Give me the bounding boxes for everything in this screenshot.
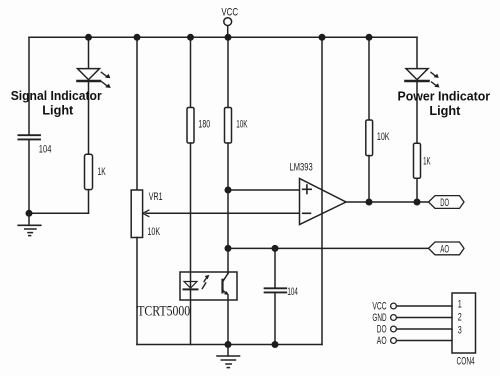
- connector CON4 body: [452, 293, 476, 353]
- wire VR1 bottom to ground rail: [136, 238, 138, 345]
- wire bottom ground rail: [137, 344, 322, 346]
- svg-text:Signal Indicator: Signal Indicator: [11, 88, 102, 103]
- connector pin 1 terminal: [391, 303, 397, 309]
- wire VR1 column top: [136, 37, 138, 190]
- svg-text:GND: GND: [372, 312, 386, 324]
- net flag AO: [429, 242, 465, 255]
- svg-text:Light: Light: [429, 103, 461, 118]
- wire AO line: [228, 247, 429, 249]
- TCRT5000 emission bolt arrow: [202, 275, 209, 289]
- potentiometer VR1 wiper arrow: [143, 210, 149, 216]
- svg-text:AO: AO: [440, 243, 449, 255]
- svg-text:1K: 1K: [423, 156, 431, 168]
- wire top VCC rail: [29, 36, 417, 38]
- capacitor C2 104: [265, 248, 287, 344]
- svg-text:180: 180: [198, 119, 210, 131]
- ground (bottom): [217, 345, 240, 368]
- LED D2 power indicator: [406, 37, 429, 143]
- LED D2 emission arrows: [431, 72, 440, 87]
- wire op-amp supply crossing (VCC to GND rail): [321, 37, 323, 344]
- potentiometer VR1 body: [131, 190, 142, 238]
- connector pin 2 wire: [396, 317, 452, 319]
- wire left column (bottom): [28, 139, 30, 213]
- op-amp minus sign: [303, 212, 311, 214]
- wire op-amp output to DO flag: [346, 201, 429, 203]
- node junction left ground: [26, 210, 33, 217]
- svg-text:Power Indicator: Power Indicator: [398, 88, 491, 103]
- op-amp plus sign: [303, 185, 312, 194]
- svg-text:1: 1: [458, 299, 462, 311]
- wire left column (top): [28, 37, 30, 135]
- resistor 1K (signal LED): [85, 154, 93, 189]
- svg-text:104: 104: [39, 144, 52, 156]
- connector pin 2 terminal: [391, 315, 397, 321]
- capacitor C1 104: [18, 135, 40, 139]
- connector pin 4 terminal: [391, 338, 397, 344]
- wire 10K to node A: [227, 143, 229, 190]
- node top rail junctions: [85, 34, 373, 41]
- wire resistor 1K to ground wire: [88, 190, 90, 214]
- wire wiper to inverting input: [146, 212, 300, 214]
- svg-text:CON4: CON4: [457, 356, 475, 368]
- connector pin 4 wire: [396, 340, 452, 342]
- svg-text:AO: AO: [377, 335, 387, 347]
- connector pin 1 wire: [396, 305, 452, 307]
- wire cap to resistor bottom: [29, 212, 89, 214]
- svg-text:2: 2: [458, 312, 462, 324]
- node A junction: [225, 187, 232, 194]
- svg-text:VR1: VR1: [149, 191, 163, 203]
- resistor 10K (middle): [225, 37, 232, 143]
- svg-text:10K: 10K: [236, 119, 248, 131]
- node ground junction (C2 bottom): [272, 341, 279, 348]
- node AO junction: [225, 245, 232, 252]
- power flag VCC: [224, 18, 232, 38]
- resistor 10K (right): [366, 37, 373, 202]
- svg-text:104: 104: [287, 286, 297, 298]
- node output/1K junction: [414, 199, 421, 206]
- node ground junction (TCRT emitter): [225, 341, 232, 348]
- svg-text:3: 3: [458, 325, 462, 337]
- wire 1K right to output: [416, 178, 418, 202]
- wire node A down to AO node: [227, 190, 229, 248]
- svg-text:LM393: LM393: [290, 161, 313, 173]
- svg-text:DO: DO: [440, 197, 449, 209]
- resistor 1K (right): [414, 143, 421, 178]
- svg-text:VCC: VCC: [372, 301, 386, 313]
- op-amp U1 LM393: [300, 179, 347, 225]
- TCRT5000 phototransistor Q1: [223, 248, 229, 344]
- optocoupler TCRT5000 body: [180, 272, 237, 300]
- svg-text:Light: Light: [42, 102, 74, 117]
- ground (left): [18, 213, 41, 235]
- svg-text:DO: DO: [377, 324, 387, 336]
- LED D1 emission arrows: [101, 72, 110, 88]
- LED D1 signal indicator: [78, 37, 101, 154]
- label Power Indicator Light: [398, 88, 491, 117]
- svg-text:10K: 10K: [377, 131, 390, 143]
- wire 180 to TCRT LED and ground rail: [190, 143, 192, 345]
- svg-text:10K: 10K: [148, 226, 161, 238]
- svg-text:1K: 1K: [98, 166, 107, 178]
- node C2 top junction: [272, 245, 279, 252]
- node output/10K junction: [366, 199, 373, 206]
- TCRT5000 emitter LED: [184, 282, 198, 290]
- net flag DO: [429, 196, 465, 209]
- resistor 180: [187, 37, 194, 143]
- connector pin 3 wire: [396, 328, 452, 330]
- wire node A to non-inverting input: [228, 189, 300, 191]
- connector pin 3 terminal: [391, 326, 397, 332]
- svg-text:VCC: VCC: [221, 7, 238, 19]
- svg-text:TCRT5000: TCRT5000: [137, 304, 190, 320]
- label Signal Indicator Light: [11, 88, 102, 117]
